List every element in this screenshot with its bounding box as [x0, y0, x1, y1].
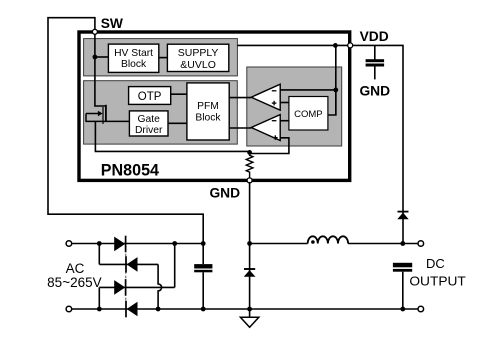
- label OUTPUT: [409, 274, 466, 289]
- block SUPPLY & UVLO: [167, 44, 228, 71]
- svg-text:GND: GND: [209, 186, 240, 201]
- diode D6 VDD feed from output: [397, 212, 408, 220]
- terminal AC input top: [66, 241, 72, 247]
- label GND pin: [209, 186, 240, 201]
- node sense resistor top junction: [247, 150, 252, 155]
- label 85~265V: [47, 275, 101, 290]
- diode D3 bridge third: [114, 279, 125, 296]
- wire bridge AC1 drop to row2: [97, 241, 102, 264]
- block region: gate driver / PFM gray box: [84, 81, 238, 144]
- wire MOSFET source down to sense resistor: [95, 121, 249, 151]
- block HV Start Block: [108, 44, 158, 72]
- wire bottom ground rail: [72, 308, 418, 310]
- block Gate Driver: [129, 111, 168, 136]
- svg-text:AC: AC: [66, 261, 85, 276]
- ground symbol: [240, 309, 258, 327]
- diode D2 bridge second: [126, 256, 138, 272]
- svg-text:SUPPLY: SUPPLY: [178, 47, 219, 59]
- svg-text:VDD: VDD: [360, 29, 389, 44]
- svg-text:OUTPUT: OUTPUT: [409, 274, 466, 289]
- svg-text:HV Start: HV Start: [114, 48, 153, 59]
- svg-text:OTP: OTP: [138, 91, 162, 103]
- wire VDD rail from supply block to right corner: [237, 45, 403, 243]
- wire bridge row3 up to plus rail: [172, 241, 177, 287]
- svg-text:SW: SW: [101, 16, 124, 31]
- wire lower comparator minus input to COMP: [280, 120, 289, 122]
- wire bridge row2 down to ground rail with hop: [156, 264, 162, 311]
- resistor R1 current sense: [246, 152, 253, 178]
- wire SW pin up and around left side to switching node: [48, 18, 203, 244]
- terminal DC output plus: [418, 241, 424, 247]
- svg-text:Driver: Driver: [135, 125, 163, 136]
- wire bridge row2: [99, 263, 158, 265]
- block region: HV start / supply gray box: [84, 39, 238, 76]
- block region: comparator gray box: [247, 67, 342, 146]
- wire main switching rail: [72, 243, 418, 245]
- svg-text:PN8054: PN8054: [101, 161, 160, 180]
- wire MOSFET body loop: [86, 111, 103, 122]
- wire Gate Driver to PFM: [168, 122, 187, 124]
- label GND below C1: [359, 83, 390, 98]
- svg-text:85~265V: 85~265V: [47, 275, 101, 290]
- svg-text:Block: Block: [195, 112, 221, 123]
- IC outer box PN8054: [79, 32, 350, 180]
- wire COMP output to VDD rail branch: [328, 90, 336, 115]
- svg-text:GND: GND: [359, 83, 390, 98]
- wire bridge row3: [99, 286, 174, 288]
- wire PFM to upper comparator output: [229, 97, 251, 99]
- capacitor C2 bulk input: [194, 241, 212, 311]
- wire SW pin down to MOSFET drain: [95, 31, 106, 106]
- wire lower comparator plus input to sense node: [250, 138, 289, 154]
- node output rail top junction: [400, 241, 405, 246]
- inductor L1: [308, 236, 348, 244]
- diode D5 freewheeling: [244, 269, 256, 277]
- block COMP: [289, 97, 328, 131]
- wire PFM to lower comparator output: [229, 127, 251, 129]
- transistor Q1 internal MOSFET channel bar: [105, 105, 107, 122]
- wire HV start to supply: [159, 57, 168, 59]
- block OTP: [129, 87, 171, 105]
- label AC: [66, 261, 85, 276]
- label PN8054: [101, 161, 160, 180]
- svg-text:DC: DC: [426, 256, 445, 271]
- svg-text:&UVLO: &UVLO: [180, 59, 216, 71]
- svg-text:COMP: COMP: [294, 109, 323, 120]
- diode D1 bridge top: [114, 236, 125, 253]
- dashed bridge column line: [125, 236, 127, 317]
- op-amp U2 lower comparator triangle: [251, 115, 280, 141]
- wire bridge AC2 rise to row3: [97, 287, 102, 311]
- svg-text:Gate: Gate: [138, 114, 161, 125]
- wire OTP to PFM: [171, 93, 187, 95]
- block PFM Block: [187, 83, 229, 140]
- node SW tap to HV start block: [93, 55, 109, 60]
- wire GND pin down to switching rail and ground rail: [247, 182, 252, 311]
- pin SW pad on IC border: [92, 29, 97, 34]
- diode D4 bridge bottom: [126, 301, 138, 318]
- capacitor C3 output: [393, 263, 412, 312]
- svg-text:PFM: PFM: [197, 101, 219, 112]
- label DC: [426, 256, 445, 271]
- wire MOSFET gate to Gate Driver: [86, 120, 129, 122]
- pin GND pad on IC border: [247, 178, 252, 183]
- terminal DC output minus: [418, 306, 424, 312]
- capacitor C1 VDD decoupling: [366, 45, 385, 79]
- wire upper comparator plus input to COMP: [280, 102, 289, 104]
- terminal AC input bottom: [66, 306, 72, 312]
- label VDD: [360, 29, 389, 44]
- pin VDD pad on IC border: [348, 43, 353, 48]
- op-amp U1 upper comparator triangle: [251, 84, 280, 110]
- svg-text:Block: Block: [121, 59, 147, 70]
- transistor Q1 internal MOSFET gate bar: [102, 107, 104, 124]
- wire upper comparator minus input to VDD rail: [280, 43, 338, 115]
- label SW: [101, 16, 124, 31]
